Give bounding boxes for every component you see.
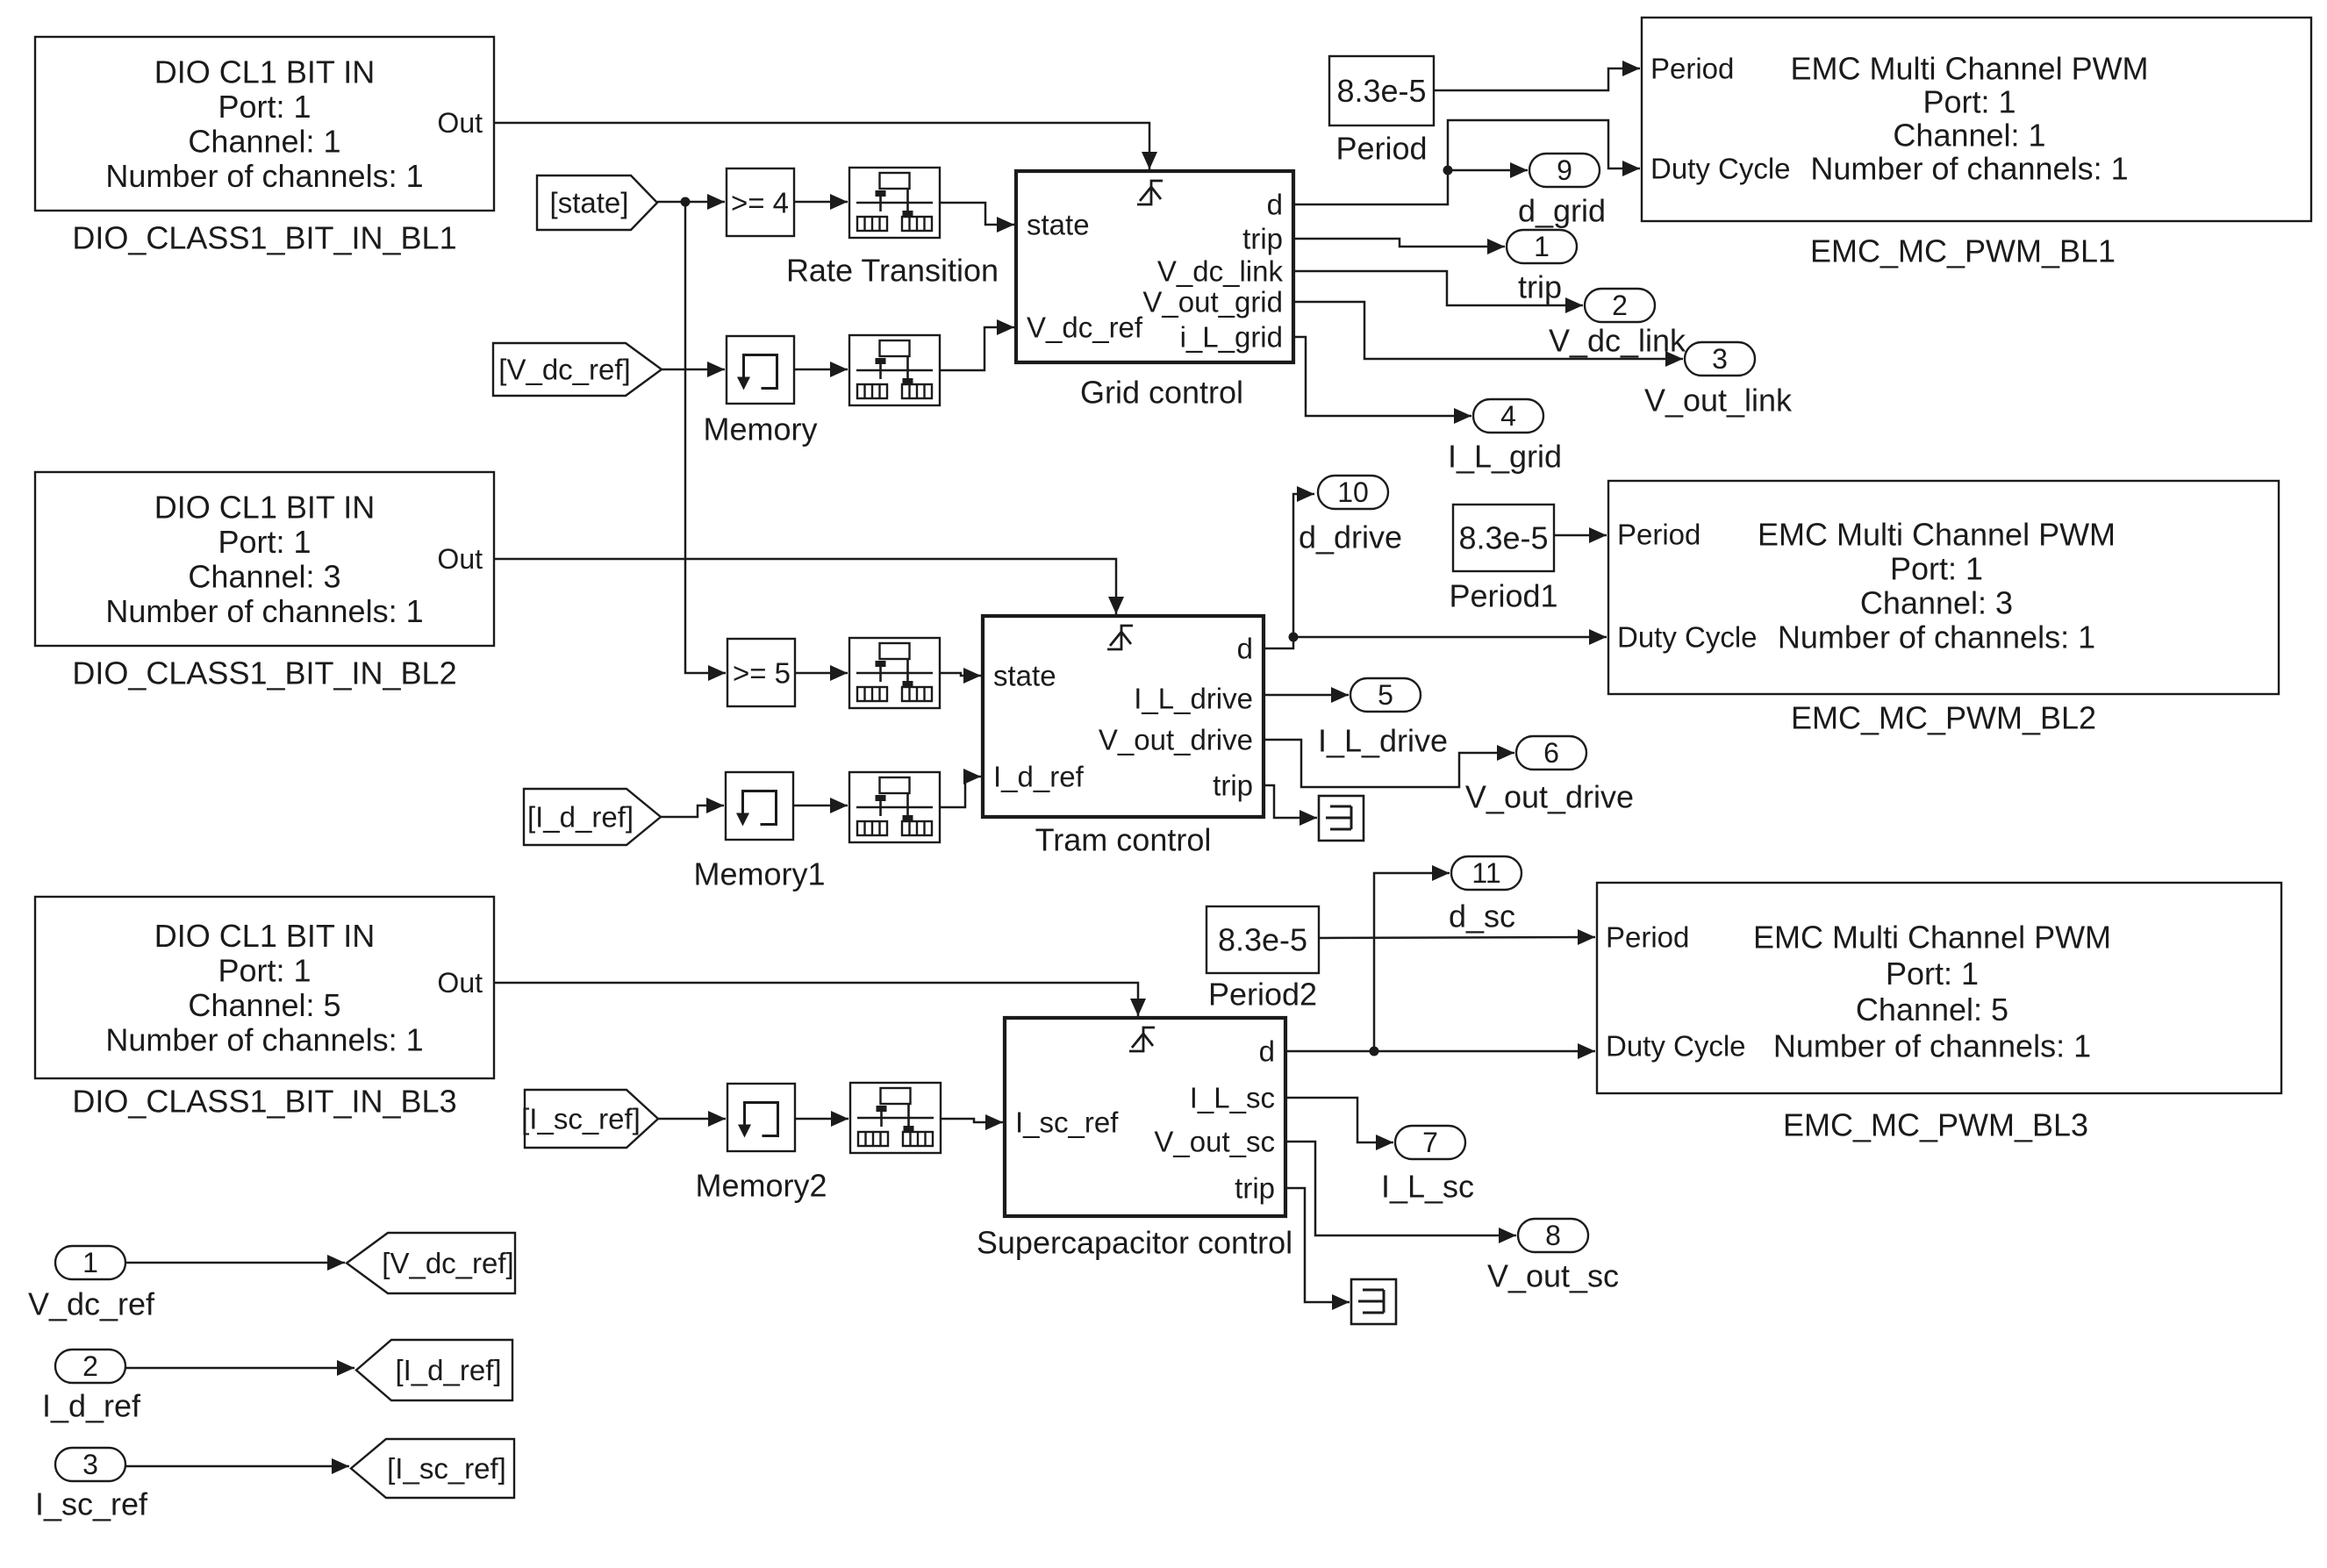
goto tag [I_sc_ref] (351, 1439, 514, 1498)
svg-text:[V_dc_ref]: [V_dc_ref] (498, 354, 630, 386)
svg-text:Number of channels: 1: Number of channels: 1 (1773, 1028, 2091, 1064)
block rate transition icon 3 (after Memory1) (849, 772, 940, 842)
output port 4 (I_L_grid) (1448, 399, 1562, 475)
wire [I_sc_ref] to Memory2 (658, 1111, 726, 1127)
svg-text:V_out_sc: V_out_sc (1487, 1258, 1619, 1294)
svg-text:I_L_sc: I_L_sc (1190, 1082, 1275, 1114)
wire Tram.I_L_drive to port 5 (1264, 687, 1349, 703)
constant Period (8.3e-5) (1329, 56, 1434, 167)
svg-text:Period1: Period1 (1449, 578, 1557, 614)
output port 7 (I_L_sc) (1381, 1126, 1474, 1205)
block Memory1 (693, 772, 825, 892)
svg-text:11: 11 (1471, 857, 1500, 889)
svg-text:Port: 1: Port: 1 (218, 524, 311, 560)
svg-text:d: d (1267, 189, 1283, 221)
svg-text:>= 4: >= 4 (731, 187, 789, 219)
svg-text:trip: trip (1242, 223, 1283, 255)
svg-text:10: 10 (1337, 476, 1369, 508)
svg-text:Out: Out (437, 967, 483, 999)
svg-text:Period: Period (1617, 519, 1700, 551)
wire rate transition icon 3 to Tram.I_d_ref (940, 769, 981, 807)
wire state junction down to >= 5 (685, 202, 726, 681)
svg-text:DIO CL1 BIT IN: DIO CL1 BIT IN (154, 918, 375, 954)
svg-text:Tram control: Tram control (1035, 822, 1212, 858)
goto tag [V_dc_ref] (347, 1233, 515, 1293)
svg-text:Period2: Period2 (1208, 977, 1317, 1013)
block Compare To Constant (>= 4) (727, 168, 794, 236)
svg-text:Memory: Memory (703, 412, 817, 447)
svg-text:Channel: 5: Channel: 5 (1856, 992, 2008, 1027)
svg-text:state: state (1027, 209, 1090, 241)
constant Period1 (8.3e-5) (1449, 505, 1557, 614)
block rate transition icon 4 (after Memory2) (850, 1083, 941, 1153)
wire Tram.V_out_drive to port 6 (1264, 740, 1514, 787)
svg-text:2: 2 (1612, 290, 1628, 321)
svg-text:d: d (1259, 1035, 1275, 1068)
svg-text:Number of channels: 1: Number of channels: 1 (105, 593, 423, 629)
wire [I_d_ref] to Memory1 (661, 798, 724, 817)
block EMC_MC_PWM_BL2 (1608, 481, 2279, 736)
wire rate transition icon 2 to Tram.state (940, 668, 981, 684)
svg-text:I_sc_ref: I_sc_ref (1015, 1106, 1119, 1139)
wire Period1 to EMC2.Period (1554, 527, 1607, 543)
svg-text:8: 8 (1545, 1220, 1561, 1251)
svg-text:d_drive: d_drive (1299, 519, 1402, 555)
svg-text:V_dc_link: V_dc_link (1157, 255, 1284, 288)
svg-text:trip: trip (1518, 269, 1562, 305)
block EMC_MC_PWM_BL1 (1642, 18, 2311, 269)
svg-text:d_sc: d_sc (1449, 899, 1515, 934)
svg-text:I_d_ref: I_d_ref (993, 761, 1085, 793)
output port 5 (I_L_drive) (1318, 678, 1448, 759)
svg-text:Channel: 5: Channel: 5 (188, 987, 340, 1023)
svg-text:V_out_sc: V_out_sc (1154, 1126, 1275, 1158)
wire input 2 to goto [I_d_ref] (125, 1360, 354, 1376)
svg-text:DIO CL1 BIT IN: DIO CL1 BIT IN (154, 489, 375, 525)
svg-text:I_sc_ref: I_sc_ref (35, 1486, 148, 1522)
output port 9 (d_grid) (1518, 154, 1606, 229)
svg-text:[I_d_ref]: [I_d_ref] (395, 1354, 501, 1386)
input port 3 (I_sc_ref) (35, 1448, 148, 1522)
svg-text:Duty Cycle: Duty Cycle (1650, 153, 1791, 185)
svg-text:8.3e-5: 8.3e-5 (1458, 520, 1548, 556)
svg-text:I_L_sc: I_L_sc (1381, 1169, 1474, 1205)
svg-text:I_d_ref: I_d_ref (42, 1388, 141, 1424)
svg-text:[state]: [state] (550, 187, 629, 219)
svg-text:EMC_MC_PWM_BL1: EMC_MC_PWM_BL1 (1810, 233, 2116, 269)
svg-text:DIO CL1 BIT IN: DIO CL1 BIT IN (154, 54, 375, 89)
svg-text:1: 1 (1534, 231, 1550, 262)
wire >= 4 to Rate Transition (794, 194, 848, 210)
wire rate transition icon 1 to Grid.V_dc_ref (940, 319, 1014, 370)
subsystem Tram control (983, 616, 1264, 858)
wire Grid.i_L_grid to port 4 (1293, 337, 1471, 424)
subsystem Grid control (1016, 171, 1293, 411)
block Compare To Constant1 (>= 5) (727, 639, 795, 706)
output port 1 (trip) (1507, 230, 1577, 305)
svg-text:DIO_CLASS1_BIT_IN_BL3: DIO_CLASS1_BIT_IN_BL3 (72, 1084, 456, 1120)
svg-text:9: 9 (1557, 154, 1572, 186)
svg-text:Channel: 3: Channel: 3 (1860, 585, 2013, 621)
svg-text:>= 5: >= 5 (733, 657, 791, 690)
svg-text:Rate Transition: Rate Transition (786, 253, 999, 289)
block rate transition icon 1 (after Memory) (849, 335, 940, 405)
from tag [V_dc_ref] (493, 343, 662, 396)
svg-text:6: 6 (1543, 737, 1559, 769)
wire Grid.V_out_grid to port 3 (1293, 302, 1683, 367)
svg-text:d_grid: d_grid (1518, 193, 1606, 229)
wire Supercap.V_out_sc to port 8 (1285, 1142, 1516, 1243)
svg-text:V_out_drive: V_out_drive (1465, 779, 1634, 815)
wire Supercap.I_L_sc to port 7 (1285, 1098, 1393, 1150)
terminator (Tram trip) (1319, 796, 1364, 841)
svg-text:[I_sc_ref]: [I_sc_ref] (521, 1103, 641, 1135)
subsystem Supercapacitor control (977, 1018, 1292, 1261)
svg-text:Channel: 1: Channel: 1 (1893, 118, 2045, 154)
svg-text:5: 5 (1378, 679, 1393, 711)
output port 11 (d_sc) (1449, 856, 1521, 934)
svg-text:[I_d_ref]: [I_d_ref] (527, 801, 634, 834)
wire junction to port 9 (1448, 162, 1528, 178)
svg-text:Grid control: Grid control (1080, 375, 1243, 411)
svg-text:Port: 1: Port: 1 (1886, 956, 1979, 992)
wire Grid.V_dc_link to port 2 (1293, 271, 1583, 313)
block DIO_CLASS1_BIT_IN_BL1 (35, 37, 494, 256)
svg-text:Port: 1: Port: 1 (218, 952, 311, 988)
svg-text:trip: trip (1213, 770, 1253, 802)
svg-text:Period: Period (1650, 53, 1734, 85)
svg-text:V_dc_ref: V_dc_ref (28, 1286, 155, 1322)
svg-text:V_dc_ref: V_dc_ref (1027, 311, 1143, 344)
svg-text:Memory1: Memory1 (693, 856, 825, 892)
input port 2 (I_d_ref) (42, 1350, 141, 1424)
svg-text:DIO_CLASS1_BIT_IN_BL2: DIO_CLASS1_BIT_IN_BL2 (72, 655, 456, 691)
wire Memory2 to rate transition icon 4 (795, 1111, 848, 1127)
wire BL3.Out to Supercapacitor control trigger (494, 983, 1146, 1016)
wire >= 5 to rate transition icon 2 (795, 665, 848, 681)
svg-text:Out: Out (437, 543, 483, 575)
svg-text:Port: 1: Port: 1 (218, 89, 311, 125)
svg-text:Supercapacitor control: Supercapacitor control (977, 1225, 1292, 1261)
svg-text:Out: Out (437, 107, 483, 139)
wire rate transition icon 4 to Supercap.I_sc_ref (941, 1114, 1003, 1130)
svg-text:EMC Multi Channel PWM: EMC Multi Channel PWM (1758, 517, 2116, 553)
svg-text:Number of channels: 1: Number of channels: 1 (1810, 151, 2128, 187)
terminator (Supercap trip) (1351, 1279, 1396, 1324)
wire input 1 to goto [V_dc_ref] (125, 1255, 345, 1271)
svg-text:d: d (1237, 633, 1253, 665)
from tag [state] (537, 175, 657, 230)
output port 10 (d_drive) (1299, 476, 1402, 555)
svg-text:Duty Cycle: Duty Cycle (1606, 1030, 1746, 1063)
block Memory (703, 336, 817, 447)
wire Supercap.d to EMC3.Duty Cycle (1285, 1043, 1595, 1059)
block DIO_CLASS1_BIT_IN_BL2 (35, 472, 494, 691)
svg-text:Period: Period (1606, 921, 1689, 954)
wire Rate Transition to Grid.state (940, 203, 1014, 233)
block Rate Transition (786, 168, 999, 289)
wire Grid.d to EMC1.Duty Cycle (1293, 120, 1640, 204)
svg-text:[V_dc_ref]: [V_dc_ref] (382, 1247, 513, 1279)
svg-text:2: 2 (82, 1350, 98, 1382)
output port 3 (V_out_link) (1644, 342, 1793, 419)
svg-text:V_out_grid: V_out_grid (1142, 286, 1283, 319)
output port 6 (V_out_drive) (1465, 736, 1634, 815)
wire [V_dc_ref] to Memory (662, 362, 725, 377)
svg-text:Channel: 3: Channel: 3 (188, 558, 340, 594)
svg-text:Number of channels: 1: Number of channels: 1 (105, 158, 423, 194)
constant Period2 (8.3e-5) (1206, 906, 1319, 1013)
wire Memory to rate transition icon 1 (794, 362, 848, 377)
svg-text:3: 3 (82, 1449, 98, 1480)
node junction on state wire (681, 197, 691, 207)
svg-text:EMC_MC_PWM_BL3: EMC_MC_PWM_BL3 (1783, 1107, 2088, 1143)
svg-text:Channel: 1: Channel: 1 (188, 123, 340, 159)
svg-text:8.3e-5: 8.3e-5 (1336, 73, 1426, 109)
node junction d_grid (1443, 166, 1453, 175)
svg-text:V_out_drive: V_out_drive (1099, 724, 1253, 756)
node junction d_sc (1370, 1047, 1379, 1056)
wire Tram.trip to terminator (1264, 785, 1317, 826)
block EMC_MC_PWM_BL3 (1597, 883, 2281, 1143)
svg-text:7: 7 (1422, 1127, 1438, 1158)
svg-text:state: state (993, 660, 1056, 692)
svg-text:4: 4 (1500, 400, 1516, 432)
wire input 3 to goto [I_sc_ref] (125, 1458, 349, 1474)
svg-text:Number of channels: 1: Number of channels: 1 (105, 1021, 423, 1057)
svg-text:EMC Multi Channel PWM: EMC Multi Channel PWM (1790, 51, 2148, 87)
svg-text:I_L_grid: I_L_grid (1448, 439, 1562, 475)
output port 2 (V_dc_link) (1549, 289, 1686, 359)
svg-text:DIO_CLASS1_BIT_IN_BL1: DIO_CLASS1_BIT_IN_BL1 (72, 220, 456, 256)
goto tag [I_d_ref] (356, 1340, 512, 1400)
svg-text:Duty Cycle: Duty Cycle (1617, 621, 1758, 654)
wire Period2 to EMC3.Period (1319, 929, 1595, 945)
from tag [I_d_ref] (524, 789, 661, 845)
wire Supercap.trip to terminator (1285, 1188, 1350, 1310)
wire Grid.trip to port 1 (1293, 239, 1505, 254)
block DIO_CLASS1_BIT_IN_BL3 (35, 897, 494, 1120)
wire BL2.Out to Tram control trigger (494, 559, 1124, 614)
svg-text:3: 3 (1712, 343, 1728, 375)
svg-text:Period: Period (1335, 131, 1427, 167)
block Memory2 (695, 1084, 827, 1204)
wire Period to EMC1.Period (1434, 61, 1640, 90)
input port 1 (V_dc_ref) (28, 1246, 155, 1322)
svg-text:EMC Multi Channel PWM: EMC Multi Channel PWM (1753, 920, 2111, 956)
svg-text:[I_sc_ref]: [I_sc_ref] (387, 1452, 506, 1485)
svg-text:i_L_grid: i_L_grid (1180, 321, 1283, 354)
svg-text:V_out_link: V_out_link (1644, 383, 1793, 419)
wire [state] to junction to >= 4 (657, 194, 725, 210)
wire Memory1 to rate transition icon 3 (793, 798, 848, 813)
block rate transition icon 2 (after >= 5) (849, 638, 940, 708)
svg-text:EMC_MC_PWM_BL2: EMC_MC_PWM_BL2 (1791, 700, 2096, 736)
svg-text:I_L_drive: I_L_drive (1318, 723, 1448, 759)
svg-text:Number of channels: 1: Number of channels: 1 (1778, 619, 2095, 655)
wire BL1.Out to Grid control trigger (494, 123, 1157, 169)
wire junction up to port 11 (1374, 865, 1450, 1051)
svg-text:Port: 1: Port: 1 (1922, 84, 2016, 120)
svg-text:trip: trip (1235, 1172, 1275, 1205)
node junction d_drive (1289, 633, 1299, 642)
svg-text:Port: 1: Port: 1 (1890, 551, 1983, 587)
svg-text:8.3e-5: 8.3e-5 (1218, 922, 1307, 958)
wire junction up to port 10 (1293, 486, 1314, 637)
svg-text:Memory2: Memory2 (695, 1168, 827, 1204)
svg-text:1: 1 (82, 1247, 98, 1278)
wire Tram.d to EMC2.Duty Cycle (1264, 629, 1607, 648)
svg-text:I_L_drive: I_L_drive (1134, 683, 1253, 715)
output port 8 (V_out_sc) (1487, 1219, 1619, 1294)
from tag [I_sc_ref] (521, 1090, 658, 1148)
